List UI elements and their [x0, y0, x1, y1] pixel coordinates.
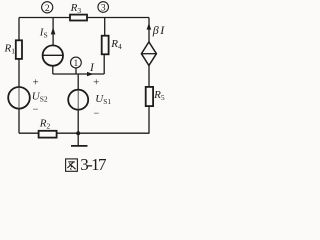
- wire bottom: [19, 132, 150, 134]
- voltage source Us2: [8, 78, 48, 116]
- wire middle horizontal (node 1 net): [53, 73, 104, 75]
- resistor R5: [146, 87, 165, 106]
- wire top from node 2 area: left rail top corner to right rail top corner: [19, 17, 149, 19]
- svg-text:−: −: [93, 109, 99, 120]
- wire R4 bottom lead: [103, 54, 105, 74]
- wire left rail: [18, 18, 20, 134]
- wire R4 top lead: [104, 18, 106, 36]
- wire Is branch bottom lead: [52, 66, 54, 74]
- resistor R3: [70, 2, 87, 21]
- wire Us1 bottom lead: [77, 110, 79, 134]
- resistor R2: [39, 118, 57, 138]
- svg-text:−: −: [33, 104, 39, 115]
- wire Us1 top lead: [77, 74, 79, 90]
- current source Is: [39, 26, 63, 65]
- svg-text:+: +: [33, 78, 39, 89]
- resistor R1: [4, 40, 23, 59]
- voltage source Us1: [68, 78, 111, 120]
- current arrow I on middle wire: [87, 62, 95, 76]
- wire node 1 tick: [75, 68, 77, 74]
- resistor R4: [102, 36, 122, 55]
- node 1: [71, 57, 82, 69]
- node 3: [98, 2, 109, 14]
- junction dot (ground node): [76, 131, 80, 135]
- Is arrow: [51, 27, 56, 34]
- svg-text:βI: βI: [152, 23, 166, 37]
- svg-text:2: 2: [45, 4, 50, 14]
- svg-text:+: +: [93, 78, 99, 89]
- svg-text:1: 1: [74, 59, 79, 69]
- dependent current source betaI (diamond): [141, 23, 165, 66]
- betaI arrow: [147, 23, 152, 30]
- ground: [71, 133, 88, 146]
- svg-text:3: 3: [101, 4, 106, 14]
- node 2: [42, 2, 53, 14]
- wire right rail: [148, 18, 150, 134]
- caption: character tu (figure) drawn as strokes: [66, 159, 78, 171]
- svg-text:3-17: 3-17: [80, 155, 107, 174]
- wire Is branch top lead: [52, 18, 54, 46]
